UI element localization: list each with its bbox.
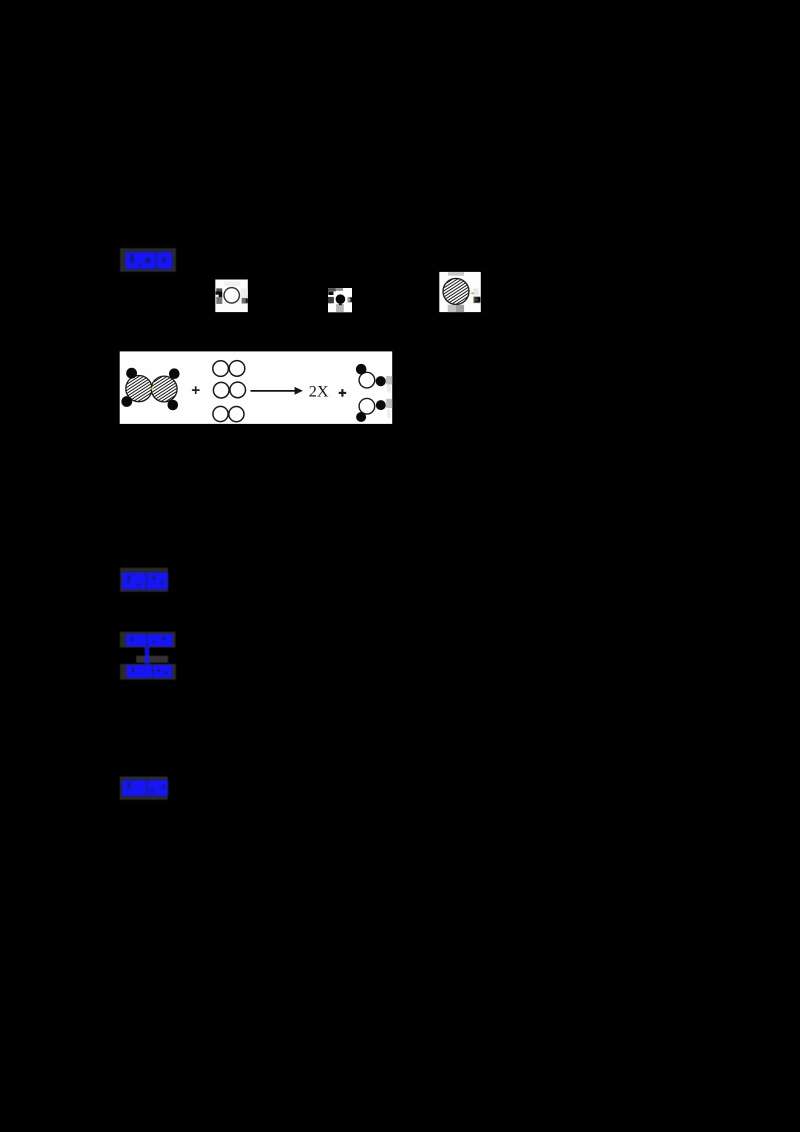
plus sign 2	[339, 389, 347, 397]
gray tab right edge top	[386, 376, 392, 384]
label block 1 background	[120, 248, 176, 272]
reaction arrow	[251, 387, 303, 395]
O2 molecule 3	[213, 406, 244, 421]
molecule C2H4: hatched circle left	[126, 376, 152, 402]
label block A background	[120, 568, 168, 592]
gray tab right edge bottom	[386, 399, 392, 408]
water molecule top	[356, 364, 386, 388]
reaction equation white box	[120, 351, 393, 424]
molecule C2H4: black atom bottom-right	[168, 400, 179, 411]
label block D blue text	[122, 780, 168, 796]
legend atom image 1 (white box with open circle)	[215, 280, 248, 313]
faint artifact strip under bottom tab	[387, 410, 390, 419]
molecule C2H4: black atom top-left	[126, 368, 137, 379]
legend atom image 2 (white box with black circle)	[328, 288, 352, 312]
molecule C2H4: hatched circle right	[151, 376, 177, 402]
small connector box between B and C	[136, 656, 168, 663]
O2 molecule 2	[213, 382, 245, 398]
legend atom image 3 (white box with hatched circle)	[439, 272, 481, 312]
O2 molecule 1	[213, 361, 245, 377]
label block B background	[120, 632, 176, 648]
yellow junction artifact	[150, 388, 153, 390]
label block B blue text	[126, 634, 173, 647]
faint artifact strip under top tab	[387, 384, 391, 392]
label block A blue text	[122, 573, 168, 590]
label block D background	[120, 776, 168, 799]
water molecule bottom	[356, 398, 386, 422]
molecule C2H4: black atom bottom-left	[121, 396, 132, 407]
blue connector stroke	[145, 647, 149, 666]
svg-text:2X: 2X	[309, 383, 329, 401]
molecule C2H4: black atom top-right	[169, 368, 180, 379]
label block 1 blue text	[126, 252, 173, 269]
plus sign 1	[192, 386, 200, 394]
label block C blue text	[127, 665, 173, 678]
label block C background	[120, 664, 176, 680]
